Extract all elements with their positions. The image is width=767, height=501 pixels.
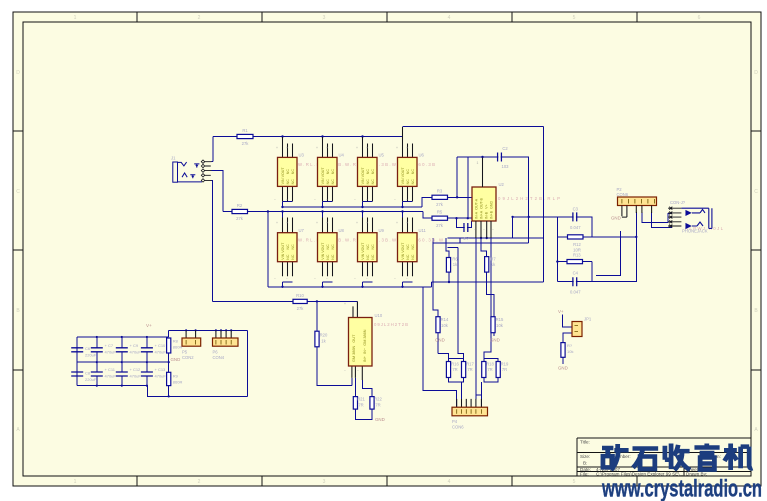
svg-text:C8: C8	[85, 371, 91, 376]
svg-text:File:: File:	[580, 472, 589, 477]
amplifier gray pin marks	[274, 146, 408, 281]
wire: pairB bottom to pin6	[476, 378, 498, 408]
svg-text:IN+B GND: IN+B GND	[490, 201, 494, 219]
svg-text:−: −	[314, 277, 316, 281]
svg-text:−: −	[366, 198, 368, 202]
svg-text:P5: P5	[182, 350, 188, 355]
capacitor C9	[116, 348, 128, 352]
svg-text:+ C12: + C12	[130, 367, 142, 372]
svg-text:1: 1	[477, 161, 479, 165]
svg-text:C6: C6	[85, 346, 91, 351]
capacitor C13	[141, 372, 153, 376]
char 1 (kuang)	[602, 444, 629, 470]
svg-text:+: +	[406, 221, 408, 225]
svg-text:R1: R1	[242, 128, 248, 133]
svg-text:V+: V+	[146, 323, 152, 328]
amplifier U11 (row2)	[398, 233, 418, 262]
svg-text:220uF: 220uF	[85, 377, 97, 382]
connector P5 (battery)	[186, 330, 196, 338]
wire: R7 feed and drop to R15	[481, 238, 494, 336]
svg-text:2: 2	[198, 15, 201, 21]
svg-text:27k: 27k	[436, 223, 444, 228]
wire: R10 rail y=301.4	[212, 301, 357, 310]
wire: cap leads column4	[146, 337, 148, 386]
resistor R1	[237, 134, 253, 138]
resistor R22 (U10 out)	[370, 397, 374, 410]
row2 IC top pins	[283, 218, 413, 233]
wire: R2 rail y=211.5	[223, 211, 423, 213]
svg-text:5: 5	[573, 15, 576, 21]
svg-text:U2: U2	[499, 182, 505, 187]
wire: C5 branch into IC	[457, 218, 472, 227]
resistor R10	[293, 299, 307, 303]
svg-text:6: 6	[698, 15, 701, 21]
wire: JP1 pin1 to V+	[563, 315, 573, 328]
capacitor C3 in RC pair1	[573, 212, 577, 221]
wire: RC pair2 loop	[557, 262, 636, 282]
wire: bank mid rail	[77, 361, 169, 363]
jack J1 pins	[205, 162, 212, 181]
wire: R14 feed	[433, 243, 438, 336]
svg-text:−: −	[286, 198, 288, 202]
svg-text:Title:: Title:	[580, 440, 590, 445]
svg-text:www.crystalradio.cn: www.crystalradio.cn	[601, 476, 762, 501]
svg-text:R17: R17	[466, 362, 474, 367]
svg-text:IN+A OUT-B: IN+A OUT-B	[480, 197, 484, 219]
svg-text:+ C7: + C7	[105, 343, 114, 348]
svg-text:+: +	[356, 146, 358, 150]
central IC U2 pins	[476, 158, 491, 239]
svg-text:470uF: 470uF	[105, 374, 117, 379]
svg-text:−: −	[274, 198, 276, 202]
svg-text:GND: GND	[171, 357, 181, 362]
svg-text:R8: R8	[173, 339, 179, 344]
svg-text:+ C10: + C10	[155, 343, 167, 348]
svg-text:R6: R6	[452, 257, 458, 262]
svg-text:GND: GND	[435, 338, 445, 343]
svg-text:C4: C4	[573, 271, 579, 276]
resistor R5	[432, 216, 448, 220]
svg-text:GND: GND	[558, 366, 568, 371]
svg-text:U3: U3	[299, 153, 305, 158]
amplifier designators	[299, 153, 427, 233]
svg-text:−: −	[492, 228, 494, 232]
resistor R20 (U10 input)	[315, 331, 319, 347]
wire: vertical x=267.9 rail-to-bus	[267, 212, 269, 287]
svg-text:−: −	[406, 277, 408, 281]
capacitor C6	[71, 348, 83, 352]
amplifier U3 (row1)	[278, 157, 298, 186]
row1 IC top pins	[283, 127, 413, 157]
capacitor C2 (top, on y=157)	[498, 153, 502, 162]
resistor R23	[561, 343, 565, 358]
svg-text:3: 3	[323, 479, 326, 485]
svg-text:+: +	[326, 146, 328, 150]
svg-text:R9: R9	[173, 374, 179, 379]
svg-text:Size:: Size:	[580, 454, 590, 459]
wire: bank bottom rail	[77, 386, 247, 397]
wire: RC pair1 loop	[557, 217, 636, 282]
svg-text:470uF: 470uF	[105, 350, 117, 355]
svg-text:−: −	[314, 198, 316, 202]
wire: row2 input rail drops	[283, 212, 403, 218]
svg-text:U8: U8	[339, 228, 345, 233]
resistor R13 in RC pair2	[567, 260, 583, 264]
svg-text:−: −	[394, 198, 396, 202]
svg-text:5: 5	[573, 479, 576, 485]
svg-text:R15: R15	[496, 317, 504, 322]
svg-text:JP1: JP1	[584, 317, 592, 322]
wire: divider resistor joins	[168, 353, 170, 396]
svg-text:−: −	[326, 277, 328, 281]
svg-text:CON2: CON2	[182, 355, 194, 360]
svg-text:7R: 7R	[487, 367, 492, 372]
svg-text:+ C9: + C9	[130, 343, 139, 348]
svg-text:09JL2H2T2B: 09JL2H2T2B	[374, 322, 408, 327]
svg-text:U4: U4	[339, 153, 345, 158]
svg-text:220uF: 220uF	[85, 353, 97, 358]
resistor R2	[232, 209, 248, 213]
svg-text:U9: U9	[379, 228, 385, 233]
svg-text:+: +	[406, 146, 408, 150]
divider resistor R9	[167, 372, 171, 385]
wire: J2 pin4 to phone jack	[642, 212, 672, 223]
svg-text:D: D	[754, 70, 758, 76]
resistor R21 (U10 out)	[353, 397, 357, 410]
connector P6 (battery)	[216, 330, 231, 338]
wire: top rail y=126.3 to right drop	[403, 125, 544, 127]
wire: cap leads column3	[121, 337, 123, 386]
svg-text:7R: 7R	[502, 367, 507, 372]
svg-text:−: −	[474, 228, 476, 232]
svg-text:27k: 27k	[436, 202, 444, 207]
svg-text:+: +	[326, 221, 328, 225]
svg-text:10k: 10k	[441, 323, 449, 328]
resistor R14 (GND leg)	[436, 317, 440, 333]
svg-text:U6: U6	[419, 153, 425, 158]
amplifier U5 (row1)	[358, 157, 378, 186]
resistor R12 in RC pair1	[568, 235, 584, 239]
svg-text:+ C13: + C13	[155, 367, 167, 372]
svg-text:+: +	[366, 146, 368, 150]
svg-text:R3: R3	[437, 189, 443, 194]
svg-text:P6: P6	[213, 350, 219, 355]
wire: central IC bottom bus	[433, 238, 544, 258]
wire: cap leads column2	[96, 337, 98, 386]
svg-text:CON4: CON4	[213, 355, 225, 360]
svg-text:R10: R10	[296, 293, 304, 298]
svg-text:CON-J?: CON-J?	[670, 200, 686, 205]
svg-text:860R: 860R	[173, 380, 183, 385]
wire: left long drop to bottom connector	[423, 287, 457, 407]
svg-text:27k: 27k	[297, 306, 305, 311]
svg-text:7R: 7R	[375, 403, 380, 408]
amplifier U6 (row1)	[398, 157, 418, 186]
wire: long central verticals to bottom network	[448, 238, 476, 399]
svg-text:R21: R21	[357, 397, 365, 402]
svg-text:470uF: 470uF	[155, 350, 167, 355]
svg-text:103: 103	[502, 164, 510, 169]
svg-text:−: −	[326, 198, 328, 202]
wire: bank left column	[76, 337, 78, 386]
svg-text:+: +	[396, 146, 398, 150]
svg-text:1: 1	[74, 15, 77, 21]
svg-text:0.047: 0.047	[570, 225, 581, 230]
svg-text:1: 1	[74, 479, 77, 485]
svg-text:+: +	[276, 146, 278, 150]
svg-text:C: C	[754, 189, 758, 195]
row1 IC bottom pins	[283, 187, 413, 202]
svg-text:+: +	[344, 302, 346, 306]
svg-text:R19: R19	[501, 362, 509, 367]
svg-text:U5: U5	[379, 153, 385, 158]
svg-text:P4: P4	[452, 419, 458, 424]
svg-text:10k: 10k	[567, 349, 573, 354]
char 2 (shi)	[633, 448, 659, 469]
svg-text:470uF: 470uF	[130, 374, 142, 379]
resistor R18 pairB	[482, 362, 486, 378]
svg-text:−: −	[344, 369, 346, 373]
svg-text:B:: B:	[583, 461, 587, 466]
amplifier U8 (row2)	[318, 233, 338, 262]
capacitor C5 (into central IC)	[464, 223, 468, 232]
svg-text:+: +	[316, 221, 318, 225]
capacitor C7	[91, 348, 103, 352]
svg-text:GND: GND	[490, 338, 500, 343]
svg-text:R5: R5	[437, 210, 443, 215]
svg-text:7R: 7R	[467, 367, 472, 372]
row2 IC bottom pins	[283, 261, 413, 276]
svg-text:+: +	[356, 221, 358, 225]
wire: chain from R6 into row2 bus	[432, 272, 450, 287]
svg-text:2: 2	[198, 479, 201, 485]
svg-text:GND: GND	[611, 216, 621, 221]
svg-text:U11: U11	[419, 228, 427, 233]
wire: pairA feed	[438, 333, 464, 362]
svg-text:IN-A OUT-A: IN-A OUT-A	[475, 198, 479, 219]
svg-text:R22: R22	[374, 397, 382, 402]
wire: U10 left resistor chain	[317, 301, 352, 385]
svg-text:PHONEJACK: PHONEJACK	[682, 229, 708, 234]
svg-text:0.047: 0.047	[570, 290, 581, 295]
electrolytic capacitor plates (bank)	[71, 348, 153, 376]
wire: jack pin5 to R10 rail	[211, 180, 214, 301]
svg-text:−: −	[354, 277, 356, 281]
svg-text:GM 386N OUT: GM 386N OUT	[352, 334, 356, 362]
svg-text:−: −	[357, 369, 359, 373]
amplifier U7 (row2)	[278, 233, 298, 262]
svg-text:R14: R14	[441, 317, 449, 322]
svg-text:3: 3	[323, 15, 326, 21]
wire: pairA bottom to pin2	[449, 378, 464, 399]
resistor R19 pairB	[496, 362, 500, 378]
resistor R3	[432, 195, 448, 199]
char 3 (shou)	[665, 444, 690, 471]
svg-text:IN-B V+: IN-B V+	[485, 204, 489, 219]
svg-text:R18: R18	[486, 362, 494, 367]
svg-text:GND: GND	[375, 417, 385, 422]
wire: row1 output bus y=207 with per-IC joiners	[283, 201, 422, 207]
svg-text:4: 4	[448, 479, 451, 485]
svg-text:7R: 7R	[452, 367, 457, 372]
svg-text:C3: C3	[573, 207, 579, 212]
svg-text:+: +	[286, 146, 288, 150]
wire: U10 bottom resistors	[355, 378, 372, 420]
svg-text:R2: R2	[237, 203, 243, 208]
svg-text:U7: U7	[299, 228, 305, 233]
wire: vertical x=543.5 to RC pair2	[432, 126, 544, 282]
capacitor C12	[116, 372, 128, 376]
svg-text:27k: 27k	[242, 141, 250, 146]
resistor R15 (GND leg)	[491, 317, 495, 333]
amplifier U4 (row1)	[318, 157, 338, 186]
svg-text:+: +	[396, 221, 398, 225]
svg-text:R16: R16	[451, 362, 459, 367]
resistor R17 pairA	[462, 362, 466, 378]
capacitor C8	[71, 372, 83, 376]
wire: R3 branch	[422, 157, 472, 207]
svg-text:4: 4	[448, 15, 451, 21]
svg-text:J1: J1	[171, 156, 176, 161]
capacitor labels (bank)	[85, 343, 166, 382]
wire: JP1 pin2 to R23 to GND	[563, 333, 572, 364]
wire: R5 branch	[423, 157, 472, 218]
svg-text:+ C11: + C11	[105, 367, 116, 372]
wire: pairB top join	[484, 238, 498, 362]
svg-text:−: −	[483, 228, 485, 232]
svg-text:R20: R20	[320, 333, 328, 338]
wire: stray net y=275.4	[596, 231, 621, 275]
svg-text:−: −	[354, 198, 356, 202]
svg-text:−: −	[366, 277, 368, 281]
svg-text:D: D	[16, 70, 20, 76]
svg-text:IN+ IN− GM 386N: IN+ IN− GM 386N	[363, 329, 367, 362]
svg-text:C: C	[16, 189, 20, 195]
svg-text:CON6: CON6	[452, 425, 464, 430]
capacitor C4 in RC pair2	[573, 277, 577, 286]
svg-text:−: −	[406, 198, 408, 202]
resistor R16 pairA	[446, 362, 450, 378]
capacitor C11	[91, 372, 103, 376]
svg-text:470uF: 470uF	[130, 350, 142, 355]
jack J1 body	[173, 162, 178, 182]
connector J2 pins	[622, 206, 652, 218]
svg-text:+: +	[366, 221, 368, 225]
wire: R1 input rail y=136.5	[213, 136, 403, 138]
svg-text:+: +	[316, 146, 318, 150]
wire: J2 pin5 to phone jack	[652, 212, 672, 227]
svg-text:10k: 10k	[496, 323, 504, 328]
capacitor C10	[141, 348, 153, 352]
svg-text:−: −	[286, 277, 288, 281]
svg-text:+: +	[276, 221, 278, 225]
svg-text:C2: C2	[502, 146, 508, 151]
svg-text:R7: R7	[490, 257, 496, 262]
wire: V+ riser and connector feed rail	[169, 330, 248, 396]
wire: row2 output bus y=286.8 with per-IC joiners	[268, 282, 432, 287]
svg-text:V+: V+	[558, 309, 564, 314]
svg-text:R?: R?	[567, 343, 573, 348]
svg-text:+: +	[286, 221, 288, 225]
svg-text:470uF: 470uF	[155, 374, 167, 379]
wire: J2 pin3 long drop	[635, 212, 637, 282]
divider resistor R8	[167, 338, 171, 353]
char 4 (yin)	[694, 444, 719, 470]
svg-text:4.7: 4.7	[463, 236, 469, 241]
svg-text:−: −	[394, 277, 396, 281]
wire: jack pin3 to R2 rail	[212, 171, 224, 212]
resistor R7	[485, 257, 489, 273]
wire: bank top rail	[77, 336, 169, 338]
resistor R6	[446, 258, 450, 273]
svg-text:7R: 7R	[358, 403, 363, 408]
char 5 (ji)	[724, 444, 753, 471]
svg-text:CON6: CON6	[617, 192, 629, 197]
wire: top out wire y=157 with C2	[457, 157, 557, 243]
svg-text:U10: U10	[375, 313, 383, 318]
wire: jack pin1 riser	[212, 137, 214, 162]
amplifier U9 (row2)	[358, 233, 378, 262]
svg-text:R12: R12	[573, 242, 581, 247]
svg-text:R13: R13	[573, 253, 581, 258]
svg-text:−: −	[274, 277, 276, 281]
svg-text:27k: 27k	[236, 216, 244, 221]
